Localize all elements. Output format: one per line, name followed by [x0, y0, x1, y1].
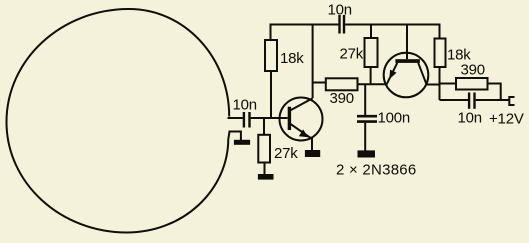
ground G3 (Q1 emitter) — [305, 150, 320, 157]
wire Q1 collector vertical to left rail — [312, 25, 314, 99]
svg-text:390: 390 — [461, 62, 485, 79]
svg-text:27k: 27k — [274, 145, 298, 162]
transistor Q2 base bar — [395, 59, 420, 63]
wire R2 top stem — [263, 118, 265, 135]
transistor Q1 emitter arrow — [299, 129, 308, 137]
wire R5a 390 left feed from Q1 collector — [313, 82, 326, 84]
svg-text:10n: 10n — [233, 97, 257, 114]
wire R6 left feed — [440, 83, 457, 85]
wire R1 top (rail left end down) — [270, 24, 272, 41]
wire R5 bottom vertical to output line — [439, 67, 441, 100]
transistor Q2 emitter diagonal — [386, 63, 397, 85]
resistor R1 18k box — [265, 40, 277, 71]
capacitor C3 100n plates — [357, 115, 377, 118]
ground G4 (C3) — [358, 150, 376, 157]
ground G2 (R2) — [258, 174, 274, 180]
transistor Q1 collector diagonal — [291, 98, 313, 110]
wire R2 bottom stem — [264, 163, 266, 175]
wire loop lower terminal to ground — [228, 132, 241, 141]
transistor Q2 emitter arrow — [389, 70, 396, 80]
wire C1 to Q1 base (node with R1, R2) — [251, 117, 288, 119]
transistor Q2 collector diagonal — [418, 63, 426, 85]
svg-text:10n: 10n — [458, 110, 482, 127]
transistor Q1 base bar — [288, 107, 291, 130]
svg-text:2 × 2N3866: 2 × 2N3866 — [336, 162, 416, 179]
svg-text:18k: 18k — [280, 50, 304, 67]
wire Q2 base stem from rail — [406, 25, 408, 60]
transistor Q1 circle — [280, 98, 323, 141]
wire R5 top from rail corner — [439, 24, 441, 39]
ground G1 (loop) — [234, 140, 250, 145]
wire R4 right to Q2 emitter node — [358, 83, 387, 85]
wire left rail — [270, 24, 339, 26]
svg-text:390: 390 — [330, 90, 354, 107]
resistor R2 27k box — [258, 135, 270, 163]
resistor R3 27k box — [365, 38, 378, 67]
resistor R6 390 box (right) — [456, 78, 488, 90]
wire output line right of C4 — [476, 99, 509, 101]
capacitor C4 10n plates (output) — [468, 93, 470, 109]
wire R3 bottom stem to emitter node — [370, 67, 372, 84]
resistor R4 390 box (first) — [326, 78, 358, 90]
svg-text:100n: 100n — [378, 110, 411, 127]
wire C3 top stem — [364, 84, 366, 115]
resistor R5 18k box (right) — [435, 39, 446, 68]
wire right rail — [345, 24, 440, 26]
+12V terminal bracket — [509, 97, 514, 105]
svg-text:27k: 27k — [340, 46, 364, 63]
transistor Q2 circle — [384, 53, 429, 98]
svg-text:+12V: +12V — [489, 111, 524, 128]
capacitor C1 10n plates — [243, 112, 245, 128]
wire C3 bottom stem — [364, 123, 366, 151]
wire R6 right drop — [488, 84, 501, 101]
wire R1 bottom stem to base node — [270, 71, 272, 118]
wire R3 top stem from rail — [370, 25, 372, 39]
wire Q1 emitter stem — [311, 138, 313, 151]
wire Q2 collector to 18k node — [426, 84, 440, 86]
transistor Q1 emitter diagonal — [291, 124, 312, 138]
wire loop upper terminal to C1 — [228, 117, 243, 119]
svg-text:10n: 10n — [328, 2, 352, 19]
capacitor C2 10n plates (top) — [338, 15, 340, 34]
wire output line left of C4 — [440, 99, 469, 101]
loop antenna L1 (large circle) — [7, 9, 230, 233]
